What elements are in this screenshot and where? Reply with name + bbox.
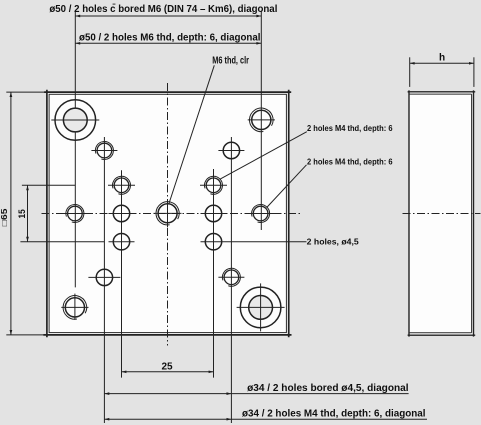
svg-text:ø50 / 2 holes c̄ bored M6 (DIN: ø50 / 2 holes c̄ bored M6 (DIN 74 – Km6)… <box>49 3 277 15</box>
svg-text:2 holes M4 thd, depth: 6: 2 holes M4 thd, depth: 6 <box>307 156 393 166</box>
svg-text:M6 thd, clr: M6 thd, clr <box>212 56 249 67</box>
svg-text:25: 25 <box>162 361 174 372</box>
svg-text:□65: □65 <box>0 208 9 226</box>
svg-text:ø34 / 2 holes M4 thd, depth: 6: ø34 / 2 holes M4 thd, depth: 6, diagonal <box>242 408 426 419</box>
svg-text:h: h <box>439 52 445 63</box>
svg-text:ø34 / 2 holes bored ø4,5, diag: ø34 / 2 holes bored ø4,5, diagonal <box>247 383 409 394</box>
svg-text:2 holes, ø4,5: 2 holes, ø4,5 <box>307 237 359 247</box>
svg-text:ø50 / 2 holes M6 thd, depth: 6: ø50 / 2 holes M6 thd, depth: 6, diagonal <box>79 32 261 43</box>
svg-text:2 holes M4 thd, depth: 6: 2 holes M4 thd, depth: 6 <box>307 123 393 133</box>
svg-text:15: 15 <box>17 209 27 218</box>
